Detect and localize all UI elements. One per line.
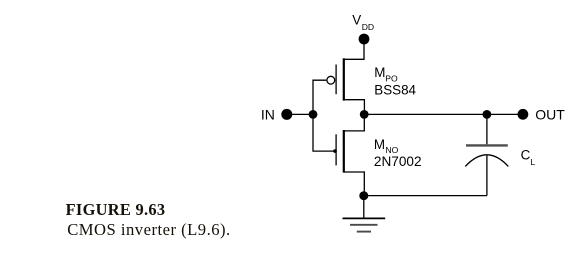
capacitor C_L top plate [466, 144, 508, 146]
junction dot bottom node [359, 191, 368, 200]
svg-text:C: C [521, 148, 531, 163]
wire output node to OUT [364, 113, 523, 115]
svg-text:2N7002: 2N7002 [374, 154, 422, 169]
svg-text:V: V [352, 12, 361, 27]
net VDD label [352, 12, 374, 32]
svg-text:L: L [530, 157, 535, 167]
wire capacitor top lead [486, 114, 488, 144]
svg-text:M: M [374, 65, 385, 80]
junction dot input node [309, 110, 318, 119]
capacitor C_L curved plate [465, 155, 508, 167]
transistor M_PO gate bar [335, 65, 337, 95]
transistor M_PO channel bar [343, 58, 345, 100]
wire VDD to PMOS source [344, 39, 364, 59]
node OUT terminal dot [518, 109, 529, 120]
ground [343, 218, 386, 231]
node VDD terminal dot [359, 34, 370, 45]
label C_L [521, 148, 536, 167]
svg-text:BSS84: BSS84 [374, 83, 416, 98]
svg-text:M: M [374, 137, 385, 152]
wire IN to gate bus [287, 113, 313, 115]
transistor M_NO gate bar [335, 134, 337, 165]
label M_NO [374, 137, 399, 155]
wire output node to NMOS drain [344, 114, 364, 130]
svg-text:IN: IN [261, 106, 275, 122]
wire PMOS drain to output node [344, 100, 364, 115]
wire bottom node to capacitor [364, 195, 487, 197]
wire gate bus (PMOS bubble to NMOS gate) [313, 80, 334, 151]
svg-text:CMOS inverter (L9.6).: CMOS inverter (L9.6). [67, 220, 231, 239]
svg-text:FIGURE 9.63: FIGURE 9.63 [66, 200, 166, 219]
transistor M_NO channel bar [343, 130, 345, 173]
junction dot capacitor tap [483, 110, 492, 119]
node IN terminal dot [281, 109, 292, 120]
transistor M_PO gate bubble [327, 76, 335, 84]
wire NMOS source to bottom node [344, 172, 364, 196]
svg-text:OUT: OUT [535, 106, 565, 122]
label M_PO [374, 65, 398, 83]
wire capacitor bottom lead [486, 156, 488, 196]
svg-text:DD: DD [362, 22, 374, 32]
junction dot output node [360, 110, 369, 119]
wire bottom node to ground [363, 196, 365, 218]
junction dot NMOS gate connection [333, 149, 337, 153]
